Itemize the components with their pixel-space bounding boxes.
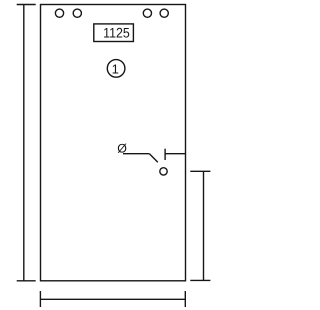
switch terminal tick [164,149,166,160]
switch contact circle [160,168,167,175]
svg-text:1125: 1125 [103,25,130,41]
position callout circle 1 [107,60,125,78]
bottom width dimension line [40,291,185,307]
enclosure panel outline [41,5,186,281]
mounting hole top-right B [160,9,168,17]
left height dimension line [17,5,36,281]
mounting hole top-left A [55,9,63,17]
switch wire from actuator [123,153,149,155]
nameplate box [94,24,134,42]
svg-text:Ø: Ø [117,141,127,155]
mounting hole top-right A [143,9,151,17]
mounting hole top-left B [73,9,81,17]
svg-text:1: 1 [112,61,119,76]
switch arm (open contact) [149,154,157,163]
right partial-height dimension line [190,171,210,280]
switch terminal wire to panel edge [165,153,185,155]
